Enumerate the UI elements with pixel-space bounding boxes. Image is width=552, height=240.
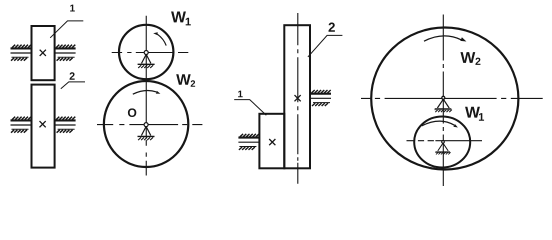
rotation arrow W1: [422, 121, 455, 126]
center line horizontal wheel 2: [97, 124, 202, 126]
pivot support wheel 1: [138, 51, 155, 69]
bearing left of roller 1: [11, 45, 32, 61]
pivot support big wheel: [435, 96, 452, 112]
label 1: [70, 5, 75, 12]
label W2: [460, 52, 475, 63]
roller 2: [32, 85, 55, 168]
label O: [128, 108, 136, 117]
center mark roller 2: [40, 121, 46, 127]
pivot support wheel 2: [138, 123, 155, 141]
bearing left of roller 2: [11, 117, 32, 133]
center line horizontal small wheel: [407, 140, 483, 142]
roller 1: [32, 26, 55, 80]
center line vertical: [145, 16, 147, 176]
leader line label 1: [50, 21, 83, 38]
bearing right of roller 2: [310, 90, 331, 106]
rotation arrow W2: [424, 36, 462, 41]
wheel 1: [119, 25, 173, 79]
label 2: [329, 23, 335, 32]
bearing right of roller 1: [55, 45, 76, 61]
leader line label 1: [234, 100, 266, 116]
center line vertical: [442, 15, 444, 187]
rotation arrow W2: [133, 91, 157, 95]
label 1: [238, 91, 243, 98]
leader line label 2: [308, 35, 343, 57]
small wheel W1: [414, 117, 470, 168]
wheel 2: [104, 81, 188, 167]
label W1: [465, 107, 480, 118]
big wheel W2: [371, 28, 518, 170]
center line vertical roller 2: [297, 13, 299, 184]
center mark roller 1: [269, 139, 275, 145]
roller 1 (small): [259, 114, 284, 169]
center mark roller 1: [40, 50, 46, 56]
leader line label 2: [61, 82, 85, 89]
label W2: [176, 74, 191, 85]
bearing left of roller 1: [238, 134, 259, 150]
center line horizontal big wheel: [361, 97, 543, 99]
label 2: [70, 72, 75, 79]
label W1: [171, 11, 186, 22]
center mark roller 2: [295, 95, 301, 101]
pivot support small wheel: [435, 141, 450, 155]
bearing right of roller 2: [55, 117, 76, 133]
center line horizontal wheel 1: [112, 52, 189, 54]
roller 2 (tall): [284, 25, 310, 168]
rotation arrow W1: [158, 34, 167, 45]
